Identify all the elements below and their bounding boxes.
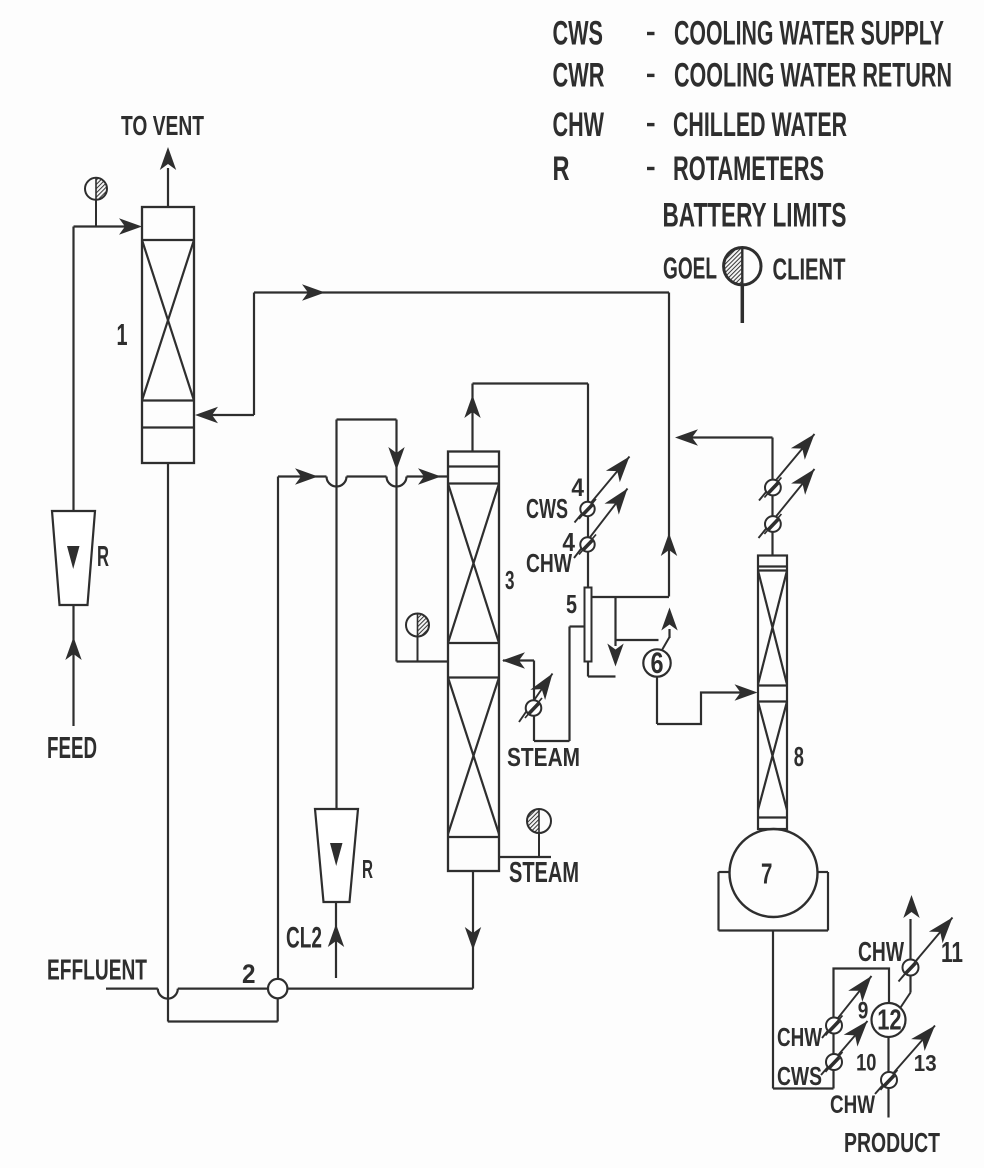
legend dash 3 — [647, 123, 655, 126]
svg-text:FEED: FEED — [47, 731, 97, 765]
steam riser to HX5 — [568, 627, 570, 742]
svg-text:CHW: CHW — [858, 936, 904, 967]
node 2 circle — [268, 979, 287, 998]
column 3 overhead riser with arrow — [471, 384, 473, 452]
vent valve 11 wire with arrow — [909, 919, 911, 960]
legend dash 1 — [647, 32, 655, 35]
wire feed riser — [72, 605, 74, 726]
wire down from transfer line — [668, 293, 670, 597]
column 3 bottoms wire with arrow — [472, 871, 474, 989]
svg-text:10: 10 — [856, 1050, 876, 1076]
wire CL2 down x396 with arrow — [395, 420, 397, 662]
pressure gauge PG3 — [538, 833, 540, 857]
tank outlet wire — [772, 931, 774, 1089]
svg-text:11: 11 — [941, 937, 963, 969]
svg-text:CHW: CHW — [777, 1022, 822, 1052]
column 8 cap lines — [758, 565, 787, 567]
valve 4 CWS — [575, 457, 630, 523]
wire tee to pump 6 — [616, 639, 659, 641]
svg-text:12: 12 — [877, 1004, 901, 1036]
svg-text:STEAM: STEAM — [507, 742, 580, 772]
wire feed upper — [72, 227, 74, 512]
column 3 top cap lines — [448, 465, 499, 467]
svg-text:COOLING WATER RETURN: COOLING WATER RETURN — [674, 57, 952, 95]
overhead transfer line with arrow — [254, 291, 669, 293]
svg-text:9: 9 — [858, 997, 869, 1024]
svg-text:CWS: CWS — [777, 1061, 822, 1091]
rotameter R2 — [315, 809, 358, 902]
column 8 mid line — [758, 700, 787, 702]
valve 10 — [821, 1021, 868, 1075]
pump 6 discharge arrow up — [662, 637, 670, 650]
steam control valve — [519, 674, 553, 723]
wire recycle riser x278 — [277, 477, 279, 979]
effluent line — [106, 987, 158, 989]
arrow recycle 1 — [295, 468, 318, 484]
recycle line from node 2 to column 3 — [278, 475, 327, 477]
CL2 inlet wire with arrow — [335, 902, 337, 978]
svg-text:CLIENT: CLIENT — [773, 253, 846, 287]
svg-text:13: 13 — [914, 1050, 937, 1076]
wire HX5 tee down — [614, 597, 616, 640]
wire CL2 into column 3 — [397, 660, 449, 662]
svg-text:COOLING WATER SUPPLY: COOLING WATER SUPPLY — [674, 15, 944, 53]
arrow down to HX5 bottom header — [614, 640, 616, 646]
svg-text:CWS: CWS — [526, 493, 568, 524]
wire node 2 to column 3 bottoms — [287, 987, 473, 989]
node 2 lower U — [168, 1020, 278, 1022]
arrow feed up — [65, 637, 81, 660]
svg-text:GOEL: GOEL — [663, 252, 717, 286]
condenser valve B — [759, 469, 815, 538]
column 3 packing X lower — [448, 678, 499, 835]
svg-text:2: 2 — [242, 959, 256, 989]
svg-text:CL2: CL2 — [286, 922, 322, 955]
wire CL2 riser x336 — [335, 420, 337, 810]
condenser valve A — [759, 434, 815, 501]
valve 13 — [875, 1026, 935, 1095]
arrow up on x669 wire — [661, 533, 677, 556]
svg-text:R: R — [362, 854, 373, 884]
valve 9 — [822, 976, 872, 1038]
pressure gauge PG2 — [417, 637, 419, 662]
product cooler box — [834, 969, 890, 1089]
column 1 shell — [142, 207, 194, 463]
svg-text:EFFLUENT: EFFLUENT — [47, 954, 147, 986]
heat exchanger 5 plate — [585, 588, 592, 662]
column 3 shell — [448, 452, 499, 872]
svg-text:R: R — [553, 150, 570, 188]
cooler 12 circle — [872, 1003, 906, 1037]
svg-text:R: R — [97, 541, 109, 573]
pressure gauge PG1 — [95, 200, 97, 227]
svg-text:CHW: CHW — [526, 548, 572, 578]
receiver 7 circle — [730, 829, 818, 917]
pump 6 suction wire — [656, 677, 658, 724]
legend dash 4 — [647, 167, 655, 170]
column 3 mid line — [448, 676, 499, 678]
rotameter R1 — [52, 511, 95, 605]
svg-text:1: 1 — [117, 318, 128, 352]
steam sparge line column 3 — [499, 856, 551, 858]
column 8 shell — [758, 556, 787, 830]
column 3 packing X upper — [448, 484, 499, 644]
column 8 packing X upper — [758, 571, 787, 685]
wire riser x254 — [253, 293, 255, 416]
wire step to column 8 — [657, 693, 753, 725]
svg-text:CWS: CWS — [553, 15, 604, 53]
svg-text:BATTERY LIMITS: BATTERY LIMITS — [663, 196, 847, 234]
arrow feed into column 8 — [735, 684, 758, 700]
svg-text:CHW: CHW — [830, 1092, 876, 1119]
valve 4 CHW — [574, 489, 628, 559]
column 1 bottoms wire — [167, 463, 169, 1022]
svg-text:STEAM: STEAM — [509, 857, 579, 889]
column 8 packing X lower — [758, 702, 787, 811]
svg-text:CHILLED WATER: CHILLED WATER — [673, 106, 847, 144]
svg-text:8: 8 — [794, 741, 804, 772]
condenser downcomer x588 — [587, 384, 589, 588]
steam arrow into column 3 — [503, 659, 534, 661]
legend dash 2 — [647, 74, 655, 77]
svg-text:5: 5 — [566, 589, 577, 619]
svg-text:TO VENT: TO VENT — [121, 110, 204, 141]
svg-text:ROTAMETERS: ROTAMETERS — [673, 150, 824, 188]
svg-text:PRODUCT: PRODUCT — [844, 1127, 940, 1158]
wire valves to column 8 top — [771, 438, 773, 481]
wire HX5 bottom header — [587, 662, 589, 677]
steam header — [534, 740, 570, 742]
steam riser with valve — [533, 661, 535, 742]
svg-text:CHW: CHW — [553, 106, 605, 144]
receiver 7 tank — [719, 871, 730, 873]
svg-text:7: 7 — [761, 858, 772, 890]
product line — [887, 1037, 889, 1118]
wire from condenser valves to junction with arrow — [679, 436, 773, 438]
wire CL2 top horizontal — [337, 418, 397, 420]
overhead to condenser horizontal — [473, 382, 589, 384]
svg-text:3: 3 — [505, 565, 515, 595]
arrow recycle 2 — [418, 468, 441, 484]
reflux line into column 1 with arrow — [199, 414, 254, 416]
pump 6 circle — [643, 649, 670, 676]
vent line with up arrow — [167, 168, 169, 207]
column 1 packing section — [142, 239, 194, 241]
wire feed to column 1 with arrow — [74, 225, 137, 227]
svg-text:CWR: CWR — [553, 57, 605, 95]
svg-text:6: 6 — [651, 647, 664, 680]
valve 11 — [899, 918, 953, 982]
wire HX5 right top — [592, 596, 670, 598]
svg-text:4: 4 — [571, 474, 584, 502]
battery limit symbol — [724, 248, 743, 285]
